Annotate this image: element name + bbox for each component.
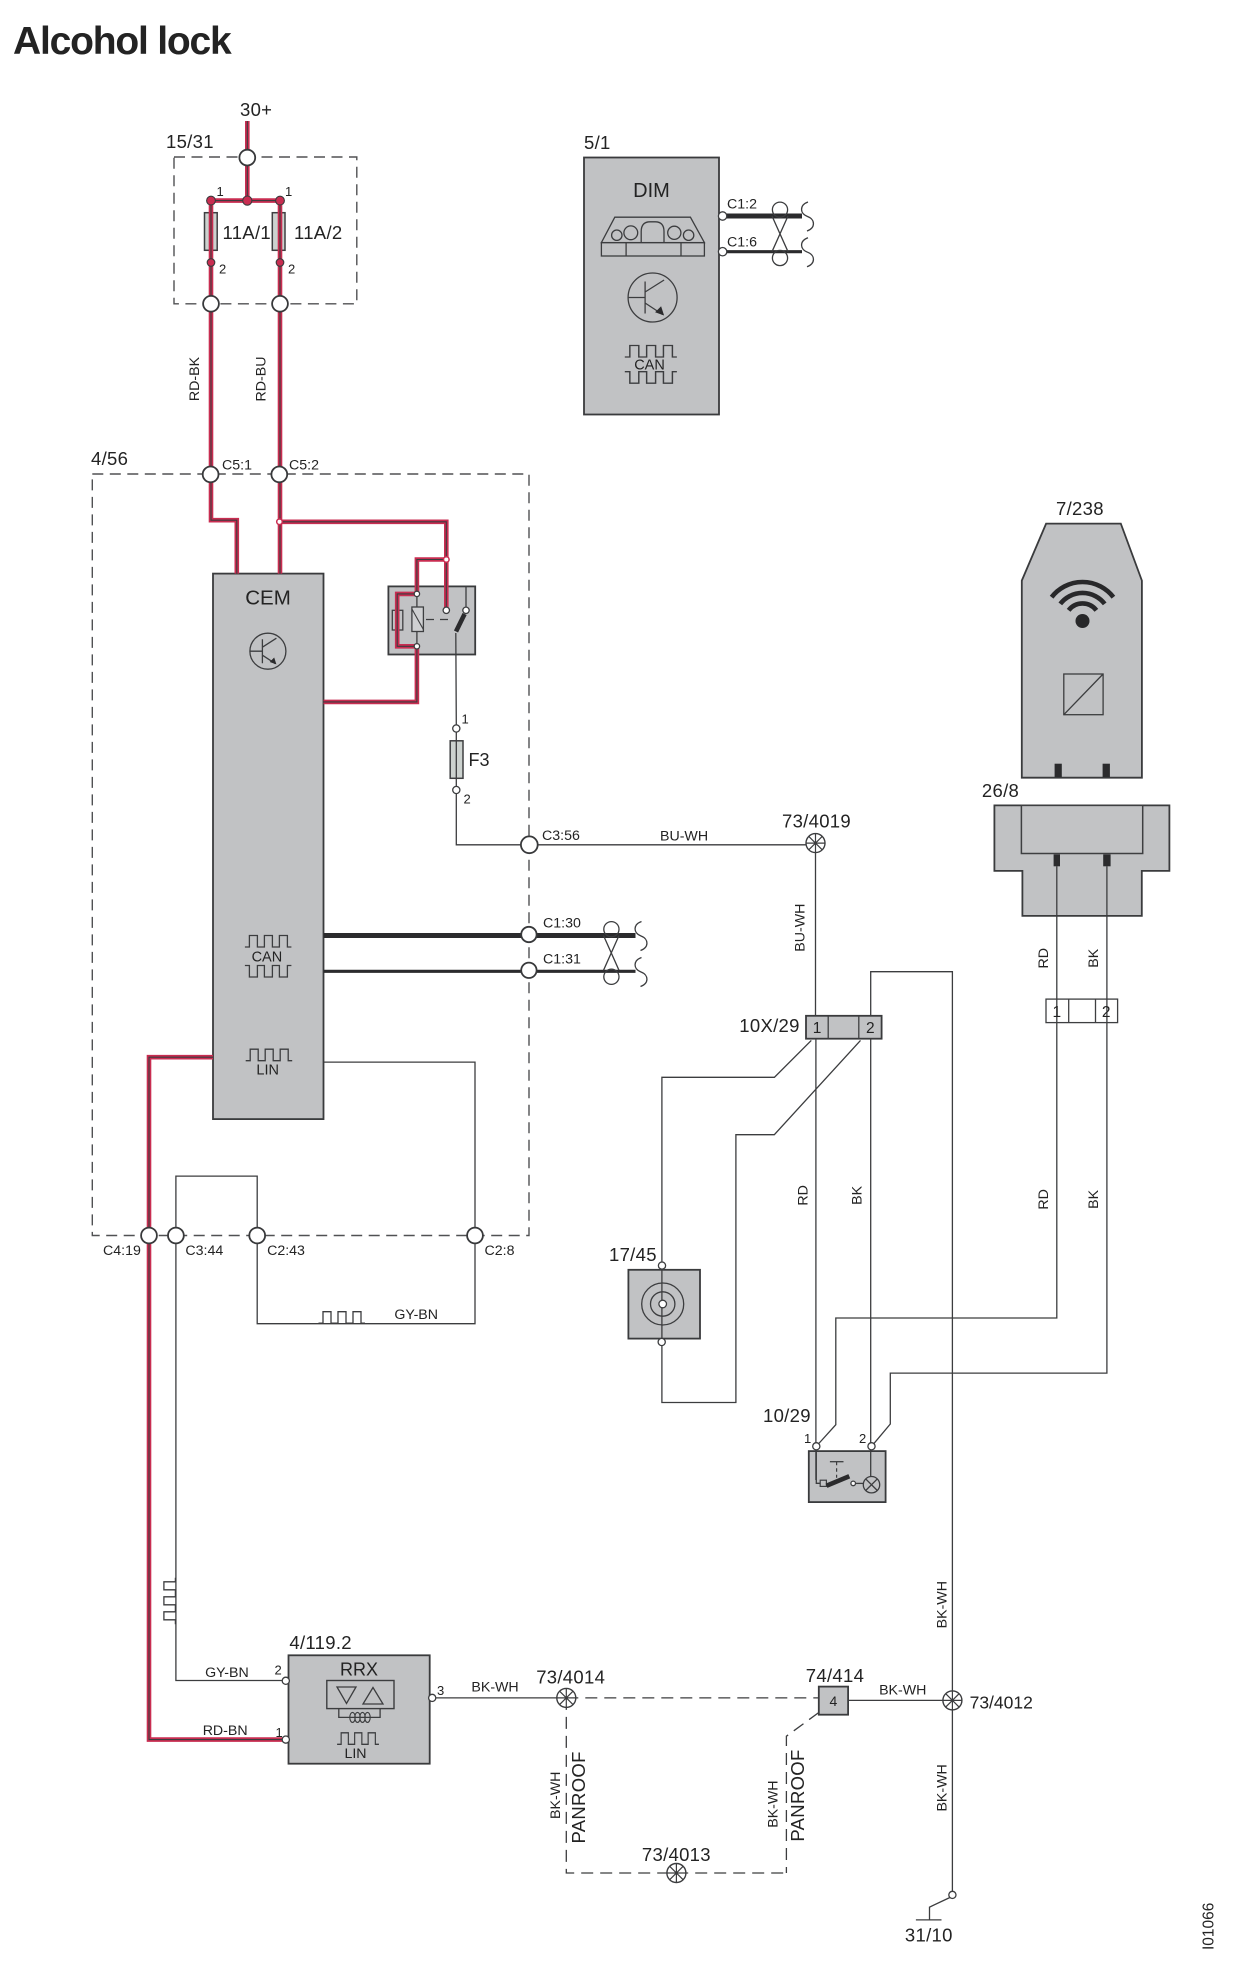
svg-text:1: 1 <box>1052 1004 1061 1021</box>
svg-text:31/10: 31/10 <box>905 1925 953 1946</box>
svg-text:1: 1 <box>813 1020 822 1037</box>
svg-text:BK-WH: BK-WH <box>935 1764 951 1811</box>
svg-text:BU-WH: BU-WH <box>660 829 708 845</box>
svg-text:17/45: 17/45 <box>609 1244 657 1265</box>
svg-text:BK: BK <box>850 1185 866 1204</box>
svg-text:Alcohol lock: Alcohol lock <box>13 20 232 63</box>
svg-text:2: 2 <box>859 1431 866 1446</box>
svg-text:C1:6: C1:6 <box>727 235 757 251</box>
svg-text:15/31: 15/31 <box>166 131 214 152</box>
svg-text:RD: RD <box>1036 1189 1052 1210</box>
svg-text:LIN: LIN <box>256 1063 279 1079</box>
svg-text:RD-BU: RD-BU <box>254 357 270 402</box>
svg-text:4/119.2: 4/119.2 <box>289 1632 351 1653</box>
svg-text:BK-WH: BK-WH <box>548 1772 564 1819</box>
svg-text:1: 1 <box>804 1431 811 1446</box>
svg-text:3: 3 <box>437 1683 444 1698</box>
svg-text:2: 2 <box>219 262 226 277</box>
svg-text:PANROOF: PANROOF <box>568 1751 589 1843</box>
svg-text:C1:30: C1:30 <box>543 916 581 932</box>
svg-text:I01066: I01066 <box>1201 1903 1218 1950</box>
svg-text:RD: RD <box>1036 948 1052 969</box>
svg-text:2: 2 <box>464 792 471 807</box>
svg-text:CEM: CEM <box>245 587 291 610</box>
svg-text:C2:8: C2:8 <box>485 1243 515 1259</box>
svg-text:F3: F3 <box>469 750 490 770</box>
svg-text:RD: RD <box>796 1185 812 1206</box>
svg-text:BK-WH: BK-WH <box>766 1780 782 1827</box>
svg-text:1: 1 <box>276 1725 283 1740</box>
svg-text:73/4012: 73/4012 <box>970 1693 1033 1713</box>
svg-text:C1:31: C1:31 <box>543 952 581 968</box>
svg-text:C5:2: C5:2 <box>289 458 319 474</box>
svg-text:RD-BN: RD-BN <box>203 1723 248 1739</box>
svg-text:4/56: 4/56 <box>91 448 128 469</box>
svg-text:74/414: 74/414 <box>806 1665 864 1686</box>
svg-text:10/29: 10/29 <box>763 1405 811 1426</box>
svg-text:1: 1 <box>217 184 224 199</box>
svg-text:BK: BK <box>1086 1189 1102 1208</box>
svg-text:11A/2: 11A/2 <box>294 222 342 243</box>
svg-text:26/8: 26/8 <box>982 780 1019 801</box>
svg-text:BK-WH: BK-WH <box>935 1581 951 1628</box>
svg-text:C5:1: C5:1 <box>222 458 252 474</box>
svg-text:CAN: CAN <box>252 950 283 966</box>
svg-text:2: 2 <box>866 1020 875 1037</box>
svg-text:5/1: 5/1 <box>584 132 611 153</box>
svg-text:BK-WH: BK-WH <box>879 1683 926 1699</box>
svg-text:7/238: 7/238 <box>1056 498 1104 519</box>
svg-text:11A/1: 11A/1 <box>223 222 271 243</box>
svg-text:CAN: CAN <box>634 358 665 374</box>
svg-text:GY-BN: GY-BN <box>394 1307 438 1323</box>
svg-text:2: 2 <box>288 262 295 277</box>
svg-text:C3:56: C3:56 <box>542 828 580 844</box>
svg-text:2: 2 <box>275 1663 282 1678</box>
svg-text:1: 1 <box>462 712 469 727</box>
svg-text:GY-BN: GY-BN <box>205 1665 249 1681</box>
svg-text:BK: BK <box>1086 948 1102 967</box>
svg-text:C3:44: C3:44 <box>185 1243 223 1259</box>
svg-text:10X/29: 10X/29 <box>739 1015 799 1036</box>
svg-text:C2:43: C2:43 <box>267 1243 305 1259</box>
svg-text:BU-WH: BU-WH <box>793 904 809 952</box>
svg-text:73/4013: 73/4013 <box>642 1844 711 1865</box>
svg-text:2: 2 <box>1102 1004 1111 1021</box>
svg-text:C1:2: C1:2 <box>727 197 757 213</box>
svg-text:1: 1 <box>285 184 292 199</box>
svg-text:C4:19: C4:19 <box>103 1243 141 1259</box>
svg-text:RD-BK: RD-BK <box>187 356 203 401</box>
svg-text:4: 4 <box>830 1693 838 1709</box>
svg-text:73/4019: 73/4019 <box>782 811 851 832</box>
svg-text:30+: 30+ <box>240 99 272 120</box>
svg-text:73/4014: 73/4014 <box>536 1667 605 1688</box>
svg-text:BK-WH: BK-WH <box>471 1680 518 1696</box>
svg-text:RRX: RRX <box>340 1660 378 1680</box>
svg-text:LIN: LIN <box>344 1746 366 1762</box>
svg-text:PANROOF: PANROOF <box>787 1749 808 1841</box>
svg-text:DIM: DIM <box>633 180 670 202</box>
